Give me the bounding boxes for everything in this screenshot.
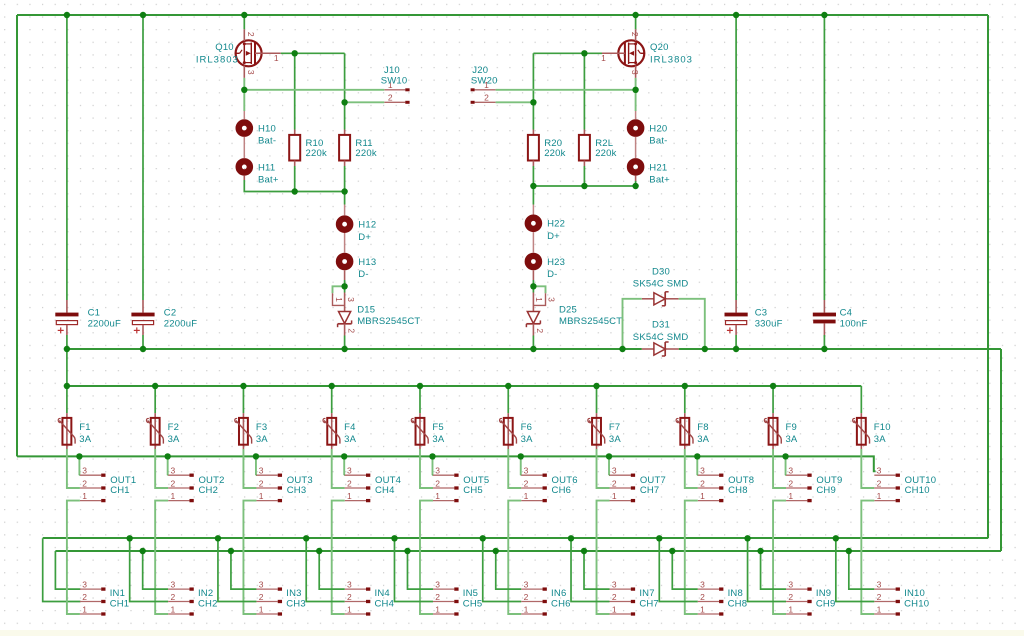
junction out rail at 521,456.4 (518, 453, 524, 459)
svg-text:2: 2 (612, 478, 617, 488)
svg-text:3: 3 (612, 466, 617, 476)
svg-text:CH6: CH6 (552, 485, 572, 496)
svg-text:3: 3 (259, 580, 264, 590)
svg-text:1: 1 (524, 491, 529, 501)
svg-text:3: 3 (82, 580, 87, 590)
svg-text:CH8: CH8 (728, 599, 748, 610)
connector IN10 CH10 (874, 580, 929, 615)
resistor R11 220k (339, 130, 377, 167)
wire fuse bus to F1 (66, 386, 68, 413)
svg-text:CH3: CH3 (286, 599, 306, 610)
junction bus1 at 571,538.3 (568, 535, 574, 541)
wire OUT3 pin3 stub (255, 474, 258, 476)
svg-text:2: 2 (347, 592, 352, 602)
connector OUT9 CH9 (786, 466, 842, 501)
junction out rail at 168,456.4 (164, 453, 170, 459)
junction mid rail at 143,349 (140, 346, 146, 352)
svg-text:1: 1 (700, 491, 705, 501)
wire rail to OUT2 pin3 (167, 456, 169, 475)
svg-text:3A: 3A (697, 434, 709, 445)
wire bus2 left drop to IN1 pin3 (55, 551, 80, 589)
svg-text:2200uF: 2200uF (88, 319, 121, 330)
junction J20 pin1 net at 636,89.8 (632, 87, 638, 93)
wire D15 to mid rail (344, 336, 346, 350)
svg-text:3A: 3A (874, 434, 886, 445)
svg-text:3: 3 (788, 580, 793, 590)
wire rail to OUT1 pin3 (78, 456, 80, 475)
junction bus2 at 231,551 (228, 548, 234, 554)
junction right tie at 636,186 (632, 183, 638, 189)
wire J20 pin2 to R20 (496, 101, 534, 103)
wire OUT1 pin3 stub (78, 474, 81, 476)
wire bus1 to IN6 pin2 (483, 538, 522, 601)
wire lead H20 to H21 (635, 137, 637, 158)
wire J20 pin1 to Q20 source (496, 89, 636, 91)
svg-text:3: 3 (82, 466, 87, 476)
wire bus1 IN pin2 net (43, 537, 988, 539)
wire R11 column below tie (344, 192, 346, 205)
resistor R2L 220k (579, 130, 617, 167)
wire fuse bus to F10 (860, 386, 862, 413)
wire right vertical to bus2 (1000, 349, 1002, 551)
wire R10 to tie (294, 166, 296, 192)
svg-text:F9: F9 (785, 422, 797, 433)
svg-text:1: 1 (274, 53, 279, 63)
svg-text:3: 3 (524, 580, 529, 590)
capacitor C1 2200uF (55, 15, 121, 349)
connector OUT8 CH8 (698, 466, 754, 501)
svg-text:2: 2 (788, 478, 793, 488)
junction bus2 at 319,551 (316, 548, 322, 554)
wire OUT5 pin1 to IN5 pin1 (420, 501, 433, 614)
hole H10 Bat- (239, 123, 277, 147)
fuse F7 3A (588, 413, 622, 449)
fuse F2 3A (146, 413, 180, 449)
wire gate to R2L (583, 53, 585, 129)
junction top rail at 143,15 (140, 12, 146, 18)
svg-text:CH7: CH7 (640, 485, 660, 496)
svg-text:CH4: CH4 (375, 599, 395, 610)
svg-text:2: 2 (484, 92, 489, 102)
wire rail to OUT6 pin3 (520, 456, 522, 475)
svg-text:2: 2 (171, 592, 176, 602)
junction bus1 at 748,538.3 (744, 535, 750, 541)
wire R11 to tie (344, 166, 346, 192)
diode D31 SK54C SMD (633, 320, 689, 356)
wire gate to R11 (344, 53, 346, 129)
svg-text:IRL3803: IRL3803 (196, 55, 239, 66)
junction bus1 at 394,538.3 (391, 535, 397, 541)
wire bus2 to IN6 pin3 (496, 551, 522, 589)
connector IN6 CH6 (521, 580, 570, 615)
fuse F10 3A (853, 413, 891, 449)
wire OUT5 pin3 stub (431, 474, 434, 476)
fuse F8 3A (676, 413, 710, 449)
wire bus2 to IN9 pin3 (761, 551, 787, 589)
svg-text:2: 2 (700, 592, 705, 602)
wire Q20 source down (635, 78, 637, 111)
svg-text:1: 1 (82, 491, 87, 501)
svg-text:Q10: Q10 (215, 42, 234, 53)
junction mid rail at 622,349 (619, 346, 625, 352)
wire bus2 to IN7 pin3 (584, 551, 610, 589)
wire fuse bus (67, 385, 861, 387)
svg-text:H20: H20 (649, 124, 667, 135)
svg-text:IRL3803: IRL3803 (650, 55, 693, 66)
svg-text:Q20: Q20 (650, 42, 669, 53)
svg-text:2: 2 (877, 592, 882, 602)
svg-text:1: 1 (877, 491, 882, 501)
wire OUT2 pin3 stub (167, 474, 170, 476)
svg-text:CH1: CH1 (110, 485, 130, 496)
svg-text:Bat+: Bat+ (258, 175, 279, 186)
junction mid rail at 533,349 (530, 346, 536, 352)
wire top rail to Q10 drain (243, 15, 245, 29)
wire OUT9 pin1 to IN9 pin1 (773, 501, 786, 614)
svg-text:MBRS2545CT: MBRS2545CT (559, 316, 622, 327)
wire OUT9 pin3 stub (785, 474, 788, 476)
junction fuse bus at 597,386 (593, 383, 599, 389)
junction bus1 at 659,538.3 (656, 535, 662, 541)
junction top rail at 824,15 (821, 12, 827, 18)
junction J20 pin2 net at 533,102.3 (530, 99, 536, 105)
wire right tie line (533, 181, 635, 186)
svg-text:D25: D25 (559, 305, 577, 316)
svg-text:SW20: SW20 (471, 75, 498, 86)
diode D25 MBRS2545CT (526, 286, 622, 335)
wire H23 to D25 node (532, 280, 534, 293)
wire gate to R10 (294, 53, 296, 129)
junction Q10 gate at 295,53.3 (292, 50, 298, 56)
wire J10 pin1 to Q10 source (244, 89, 384, 91)
svg-text:2: 2 (535, 328, 545, 333)
svg-text:2: 2 (82, 592, 87, 602)
junction fuse bus at 67,386 (64, 383, 70, 389)
junction out rail at 79,456.4 (76, 453, 82, 459)
wire bus1 to IN5 pin2 (394, 538, 433, 601)
junction fuse bus at 773,386 (770, 383, 776, 389)
svg-text:Bat-: Bat- (649, 136, 667, 147)
wire bus2 to IN2 pin3 (143, 551, 169, 589)
svg-text:2: 2 (524, 478, 529, 488)
wire lead to H12 (344, 205, 346, 216)
wire lead H21 down (635, 176, 637, 181)
connector IN2 CH2 (168, 580, 217, 615)
wire lead to H20 (635, 111, 637, 119)
wire VBAT top rail (17, 14, 988, 16)
svg-text:1: 1 (877, 604, 882, 614)
wire F4 to OUT4 pin2 (332, 449, 345, 488)
wire bus1 to IN8 pin2 (659, 538, 698, 601)
junction mid rail at 736,349 (733, 346, 739, 352)
junction right tie at 584,186 (581, 183, 587, 189)
wire fuse bus to F4 (331, 386, 333, 413)
junction out rail at 344,456.4 (341, 453, 347, 459)
svg-text:3A: 3A (432, 434, 444, 445)
svg-text:MBRS2545CT: MBRS2545CT (357, 316, 420, 327)
svg-text:C1: C1 (88, 307, 101, 318)
svg-text:Bat-: Bat- (258, 136, 276, 147)
wire mid rail right of D31 (679, 348, 1001, 350)
junction D15 node at 345,286.3 (341, 283, 347, 289)
junction fuse bus at 508,386 (505, 383, 511, 389)
junction fuse bus at 685,386 (682, 383, 688, 389)
resistor R20 220k (528, 130, 566, 167)
wire R20 to tie (532, 166, 534, 186)
junction out rail at 609,456.4 (606, 453, 612, 459)
svg-text:2: 2 (346, 328, 356, 333)
wire VBAT left vertical (16, 15, 18, 456)
wire rail to OUT3 pin3 (255, 456, 257, 475)
svg-text:3: 3 (877, 466, 882, 476)
svg-text:2: 2 (259, 478, 264, 488)
connector IN9 CH9 (786, 580, 835, 615)
svg-text:F5: F5 (432, 422, 444, 433)
wire fuse bus to F7 (596, 386, 598, 413)
junction out rail at 256,456.4 (253, 453, 259, 459)
connector OUT3 CH3 (256, 466, 312, 501)
junction out rail at 432,456.4 (429, 453, 435, 459)
svg-text:F7: F7 (609, 422, 621, 433)
svg-text:3A: 3A (79, 434, 91, 445)
wire right vertical to bus1 (987, 15, 989, 538)
svg-text:D+: D+ (358, 232, 371, 243)
svg-text:F10: F10 (874, 422, 891, 433)
svg-text:C2: C2 (164, 307, 177, 318)
svg-text:CH5: CH5 (463, 485, 483, 496)
svg-text:220k: 220k (595, 148, 616, 159)
wire F3 to OUT3 pin2 (243, 449, 256, 488)
wire F2 to OUT2 pin2 (155, 449, 168, 488)
connector IN1 CH1 (80, 580, 129, 615)
connector IN4 CH4 (345, 580, 394, 615)
junction top rail at 636,15 (632, 12, 638, 18)
junction bus2 at 143,551 (139, 548, 145, 554)
svg-text:3A: 3A (785, 434, 797, 445)
svg-text:CH6: CH6 (551, 599, 571, 610)
wire F10 to OUT10 pin2 (861, 449, 874, 488)
wire bus2 to IN8 pin3 (672, 551, 698, 589)
svg-text:H21: H21 (649, 162, 667, 173)
hole H11 Bat+ (239, 161, 279, 185)
wire OUT6 pin3 stub (520, 474, 523, 476)
junction bus1 at 306,538.3 (303, 535, 309, 541)
wire OUT pin3 rail (17, 456, 876, 471)
svg-text:1: 1 (259, 491, 264, 501)
svg-text:2: 2 (630, 32, 640, 37)
svg-text:1: 1 (347, 604, 352, 614)
junction top rail at 67,15 (64, 12, 70, 18)
junction left tie at 345,191.5 (341, 188, 347, 194)
svg-text:H22: H22 (547, 219, 565, 230)
svg-text:1: 1 (347, 491, 352, 501)
svg-text:SW10: SW10 (381, 75, 408, 86)
connector IN7 CH7 (610, 580, 659, 615)
svg-text:3: 3 (630, 70, 640, 75)
wire bus2 IN pin3 net (55, 550, 1001, 552)
svg-text:Bat+: Bat+ (649, 175, 670, 186)
wire fuse bus to F3 (242, 386, 244, 413)
diode D30 SK54C SMD (633, 266, 689, 305)
svg-text:2: 2 (388, 92, 393, 102)
wire rail to OUT7 pin3 (608, 456, 610, 475)
svg-text:CH7: CH7 (639, 599, 659, 610)
wire lead H10 to H11 (243, 137, 245, 158)
svg-text:1: 1 (788, 604, 793, 614)
junction bus1 at 130,538.3 (126, 535, 132, 541)
wire C1 column to fuse bus (66, 349, 68, 386)
wire OUT6 pin1 to IN6 pin1 (508, 501, 521, 614)
svg-text:3: 3 (524, 466, 529, 476)
hole H12 D+ (339, 219, 376, 243)
junction bus2 at 849,551 (846, 548, 852, 554)
svg-text:3: 3 (547, 297, 557, 302)
svg-text:D-: D- (547, 269, 557, 280)
connector OUT4 CH4 (345, 466, 401, 501)
wire lead H11 down (243, 176, 245, 180)
junction J10 pin2 net at 345,102.3 (341, 99, 347, 105)
svg-text:220k: 220k (355, 148, 376, 159)
wire D25 to mid rail (532, 336, 534, 350)
svg-text:2: 2 (612, 592, 617, 602)
wire R2L to tie (583, 166, 585, 186)
wire OUT4 pin1 to IN4 pin1 (332, 501, 345, 614)
wire lead H13 down (344, 270, 346, 280)
hole H13 D- (339, 256, 376, 280)
fuse F4 3A (323, 413, 357, 449)
svg-text:H23: H23 (547, 257, 565, 268)
wire F6 to OUT6 pin2 (508, 449, 521, 488)
svg-text:1: 1 (435, 604, 440, 614)
svg-text:2: 2 (435, 478, 440, 488)
junction fuse bus at 155,386 (152, 383, 158, 389)
svg-text:3: 3 (346, 297, 356, 302)
svg-text:3A: 3A (609, 434, 621, 445)
junction mid rail at 824,349 (821, 346, 827, 352)
svg-text:1: 1 (612, 604, 617, 614)
svg-text:2: 2 (877, 478, 882, 488)
junction bus1 at 483,538.3 (480, 535, 486, 541)
junction out rail at 697,456.4 (694, 453, 700, 459)
svg-text:330uF: 330uF (755, 319, 783, 330)
wire lead H22 to H23 (532, 232, 534, 253)
svg-text:C4: C4 (840, 307, 853, 318)
junction bus2 at 584,551 (581, 548, 587, 554)
wire R20 column below tie (532, 186, 534, 205)
svg-text:1: 1 (435, 491, 440, 501)
svg-text:C3: C3 (755, 307, 768, 318)
capacitor C3 330uF (725, 15, 783, 349)
svg-text:220k: 220k (544, 148, 565, 159)
wire J10 pin2 to R11 (345, 101, 385, 103)
svg-text:D+: D+ (547, 231, 560, 242)
svg-text:1: 1 (171, 491, 176, 501)
wire lead to H22 (532, 205, 534, 215)
junction top rail at 736,15 (733, 12, 739, 18)
wire bus1 to IN9 pin2 (748, 538, 787, 601)
svg-text:D15: D15 (357, 305, 375, 316)
diode D15 MBRS2545CT (333, 286, 421, 335)
svg-text:CH10: CH10 (904, 599, 929, 610)
wire F9 to OUT9 pin2 (773, 449, 786, 488)
wire bus1 to IN4 pin2 (306, 538, 345, 601)
wire F5 to OUT5 pin2 (420, 449, 433, 488)
svg-text:1: 1 (601, 53, 606, 63)
junction bus2 at 672,551 (669, 548, 675, 554)
wire F8 to OUT8 pin2 (685, 449, 698, 488)
wire Q20 gate net (533, 52, 602, 54)
svg-text:2: 2 (524, 592, 529, 602)
svg-text:SK54C SMD: SK54C SMD (633, 332, 689, 343)
connector OUT5 CH5 (433, 466, 489, 501)
transistor Q20 IRL3803 (599, 29, 693, 78)
svg-text:2: 2 (82, 478, 87, 488)
junction bus1 at 836,538.3 (833, 535, 839, 541)
wire OUT8 pin3 stub (696, 474, 699, 476)
svg-text:3: 3 (612, 580, 617, 590)
svg-text:2200uF: 2200uF (164, 319, 197, 330)
junction mid rail at 345,349 (341, 346, 347, 352)
wire OUT8 pin1 to IN8 pin1 (685, 501, 698, 614)
wire rail to OUT5 pin3 (431, 456, 433, 475)
connector OUT2 CH2 (168, 466, 224, 501)
wire OUT7 pin3 stub (608, 474, 611, 476)
hole H22 D+ (528, 218, 565, 242)
wire rail to OUT8 pin3 (696, 456, 698, 475)
wire OUT4 pin3 stub (343, 474, 346, 476)
connector OUT1 CH1 (80, 466, 136, 501)
svg-text:D-: D- (358, 269, 368, 280)
transistor Q10 IRL3803 (196, 29, 281, 78)
svg-text:CH8: CH8 (728, 485, 748, 496)
wire rail to OUT9 pin3 (785, 456, 787, 475)
wire bus2 to IN10 pin3 (849, 551, 875, 589)
svg-text:3A: 3A (344, 434, 356, 445)
wire lead H23 down (532, 270, 534, 280)
wire lead H12 to H13 (344, 233, 346, 253)
wire OUT7 pin1 to IN7 pin1 (597, 501, 610, 614)
wire bus2 to IN4 pin3 (319, 551, 345, 589)
svg-text:3: 3 (259, 466, 264, 476)
fuse F5 3A (411, 413, 445, 449)
wire bus1 to IN2 pin2 (130, 538, 169, 601)
connector IN3 CH3 (256, 580, 305, 615)
junction fuse bus at 420,386 (417, 383, 423, 389)
svg-text:2: 2 (788, 592, 793, 602)
wire OUT3 pin1 to IN3 pin1 (243, 501, 256, 614)
svg-text:3: 3 (788, 466, 793, 476)
svg-text:F3: F3 (256, 422, 268, 433)
junction bus1 at 218,538.3 (215, 535, 221, 541)
svg-text:100nF: 100nF (840, 319, 868, 330)
capacitor C4 100nF (813, 15, 868, 349)
svg-text:H13: H13 (358, 257, 376, 268)
wire bus2 to IN5 pin3 (407, 551, 433, 589)
svg-text:3: 3 (171, 580, 176, 590)
wire mid rail left of D31 (67, 348, 642, 350)
fuse F6 3A (500, 413, 534, 449)
wire bus2 to IN3 pin3 (231, 551, 257, 589)
svg-text:3A: 3A (521, 434, 533, 445)
wire D30 right bracket (679, 299, 705, 349)
svg-text:H11: H11 (258, 162, 275, 173)
svg-text:F2: F2 (168, 422, 180, 433)
wire fuse bus to F8 (684, 386, 686, 413)
hole H21 Bat+ (630, 161, 670, 185)
wire Q10 source down (243, 78, 245, 111)
svg-text:1: 1 (82, 604, 87, 614)
junction mid rail at 67,349 (64, 346, 70, 352)
